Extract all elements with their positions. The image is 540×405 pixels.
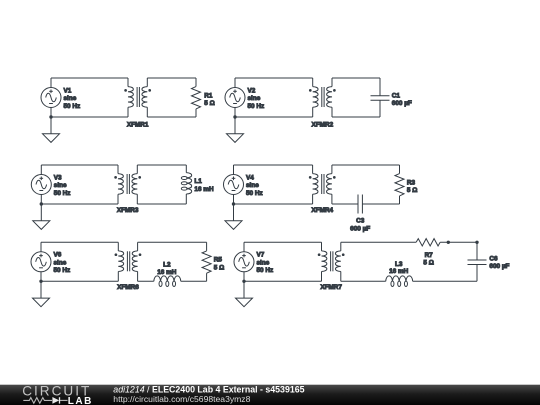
ground G1 xyxy=(43,117,60,142)
voltage source V7 (sine, 50 Hz) xyxy=(234,242,254,281)
wire XFMR1 secondary top rail xyxy=(147,77,196,79)
resistor R3 xyxy=(395,165,404,204)
wire XFMR6 secondary top rail xyxy=(138,241,207,243)
wire V6 bottom rail xyxy=(41,280,118,282)
svg-text:XFMR6: XFMR6 xyxy=(117,284,139,291)
junction dot V7-ground node xyxy=(242,280,245,283)
wire secondary bottom rail right of L3 xyxy=(413,280,477,282)
svg-text:XFMR3: XFMR3 xyxy=(117,207,139,214)
svg-text:V2sine50 Hz: V2sine50 Hz xyxy=(248,87,265,109)
inductor L3 xyxy=(386,276,413,287)
svg-text:http://circuitlab.com/c5698tea: http://circuitlab.com/c5698tea3ymz8 xyxy=(113,394,250,404)
svg-text:XFMR7: XFMR7 xyxy=(320,284,342,291)
svg-text:R15 Ω: R15 Ω xyxy=(204,92,214,107)
svg-text:V3sine50 Hz: V3sine50 Hz xyxy=(54,174,71,196)
wire XFMR7 secondary top rail left of R7 xyxy=(341,241,416,243)
voltage source V4 (sine, 50 Hz) xyxy=(224,165,244,204)
wire V1 top rail xyxy=(51,77,128,79)
transformer XFMR2 xyxy=(309,78,336,117)
ground G2 xyxy=(227,117,244,142)
wire V7 top rail xyxy=(244,241,322,243)
capacitor C3 xyxy=(358,195,362,214)
logo resistor zigzag xyxy=(23,398,52,404)
logo diode xyxy=(52,397,59,404)
voltage source V6 (sine, 50 Hz) xyxy=(31,242,51,281)
wire XFMR4 secondary top rail xyxy=(332,164,400,166)
inductor L1 xyxy=(181,165,191,204)
svg-text:C3600 µF: C3600 µF xyxy=(350,218,370,233)
voltage source V1 (sine, 50 Hz) xyxy=(41,78,61,117)
svg-text:R55 Ω: R55 Ω xyxy=(214,257,224,272)
svg-text:L316 mH: L316 mH xyxy=(389,261,409,275)
wire XFMR3 secondary top rail xyxy=(137,164,186,166)
wire XFMR2 secondary top rail xyxy=(332,77,380,79)
svg-text:C6600 µF: C6600 µF xyxy=(489,256,509,271)
svg-text:R35 Ω: R35 Ω xyxy=(407,179,417,194)
capacitor C6 xyxy=(468,242,487,281)
inductor L2 xyxy=(154,276,181,287)
svg-text:R75 Ω: R75 Ω xyxy=(423,252,433,267)
footer bar xyxy=(0,385,540,405)
wire XFMR7 secondary bottom rail left of L3 xyxy=(341,280,386,282)
transformer XFMR1 xyxy=(124,78,151,117)
svg-text:XFMR4: XFMR4 xyxy=(311,207,333,214)
junction dot V6-ground node xyxy=(39,280,42,283)
capacitor C1 xyxy=(371,78,390,117)
wire V4 top rail xyxy=(234,164,313,166)
wire secondary bottom rail right of C3 xyxy=(362,203,399,205)
wire V2 bottom rail xyxy=(235,116,313,118)
wire V1 bottom rail xyxy=(51,116,128,118)
transformer XFMR6 xyxy=(115,242,142,281)
wire V4 bottom rail xyxy=(234,203,313,205)
svg-text:C1600 µF: C1600 µF xyxy=(392,92,412,107)
wire V6 top rail xyxy=(41,241,118,243)
junction dot V1-ground node xyxy=(49,115,52,118)
wire XFMR4 secondary bottom rail left of C3 xyxy=(332,203,358,205)
junction dot node after R7 xyxy=(447,241,450,244)
transformer XFMR7 xyxy=(318,242,345,281)
svg-text:V4sine50 Hz: V4sine50 Hz xyxy=(246,174,263,196)
resistor R1 xyxy=(192,78,201,117)
svg-text:V1sine50 Hz: V1sine50 Hz xyxy=(64,87,81,109)
ground G3 xyxy=(33,204,50,229)
svg-text:L216 mH: L216 mH xyxy=(157,261,177,276)
wire XFMR1 secondary bottom rail xyxy=(147,116,196,118)
wire secondary top rail right of R7 xyxy=(440,241,477,243)
ground G7 xyxy=(236,281,253,306)
resistor R5 xyxy=(202,242,211,281)
wire XFMR6 secondary bottom rail left of L2 xyxy=(138,280,154,282)
ground G5 xyxy=(33,281,50,306)
svg-text:V7sine50 Hz: V7sine50 Hz xyxy=(257,252,274,274)
junction dot V2-ground node xyxy=(233,115,236,118)
svg-text:V6sine50 Hz: V6sine50 Hz xyxy=(54,252,71,274)
svg-text:L116 mH: L116 mH xyxy=(194,178,214,193)
wire V3 bottom rail xyxy=(41,203,118,205)
wire XFMR3 secondary bottom rail xyxy=(137,203,186,205)
transformer XFMR4 xyxy=(309,165,336,204)
resistor R7 xyxy=(416,239,440,246)
wire secondary bottom rail right of L2 xyxy=(181,280,207,282)
junction dot V3-ground node xyxy=(40,202,43,205)
wire XFMR2 secondary bottom rail xyxy=(332,116,380,118)
svg-text:LAB: LAB xyxy=(68,396,93,405)
junction dot V4-ground node xyxy=(232,202,235,205)
svg-text:XFMR1: XFMR1 xyxy=(127,121,149,128)
wire V3 top rail xyxy=(41,164,118,166)
wire V2 top rail xyxy=(235,77,313,79)
ground G4 xyxy=(225,204,242,229)
wire V7 bottom rail xyxy=(244,280,322,282)
voltage source V2 (sine, 50 Hz) xyxy=(225,78,245,117)
voltage source V3 (sine, 50 Hz) xyxy=(31,165,51,204)
transformer XFMR3 xyxy=(114,165,141,204)
junction dot top-right corner node xyxy=(475,241,478,244)
svg-text:XFMR2: XFMR2 xyxy=(312,121,334,128)
